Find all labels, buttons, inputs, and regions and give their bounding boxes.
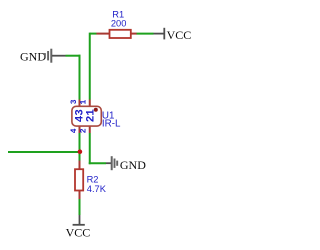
svg-text:GND: GND <box>20 50 46 64</box>
power VCC bottom <box>66 215 91 239</box>
IC U1 IR-L <box>70 99 121 133</box>
wire <box>136 33 153 35</box>
resistor R1 <box>96 10 136 38</box>
pin-1 dot <box>94 108 98 112</box>
svg-text:4.7K: 4.7K <box>87 184 107 194</box>
wire <box>89 33 91 100</box>
svg-text:200: 200 <box>111 18 127 28</box>
wire <box>79 133 81 161</box>
svg-text:VCC: VCC <box>66 225 91 239</box>
svg-text:1: 1 <box>79 100 88 105</box>
wire <box>89 162 106 164</box>
wire <box>89 133 91 164</box>
wire <box>8 151 81 153</box>
power GND right <box>106 156 146 172</box>
svg-text:IR-L: IR-L <box>102 118 121 129</box>
resistor R2 <box>75 161 107 200</box>
power VCC top <box>154 28 192 42</box>
svg-text:3: 3 <box>70 99 79 104</box>
svg-text:2: 2 <box>80 128 89 133</box>
svg-text:4: 4 <box>70 128 79 133</box>
wire <box>79 199 81 215</box>
node junction <box>78 149 83 154</box>
wire <box>66 55 81 57</box>
svg-text:VCC: VCC <box>167 28 192 42</box>
wire <box>90 33 97 35</box>
wire <box>79 55 81 100</box>
power GND left <box>20 49 66 64</box>
svg-text:GND: GND <box>120 158 146 172</box>
svg-text:R2: R2 <box>87 174 99 184</box>
